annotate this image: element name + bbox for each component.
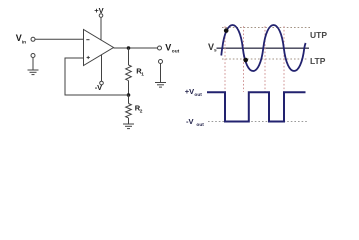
terminal -V: [100, 81, 104, 85]
dotted vertical line crossing 1: [224, 26, 226, 92]
label Vin: [16, 33, 26, 46]
wire output node to R1: [128, 48, 130, 65]
ground output: [155, 83, 166, 88]
resistor R2: [126, 104, 132, 118]
dotted vertical line crossing 2: [243, 26, 245, 92]
resistor R1: [126, 65, 132, 81]
label Vs: [208, 42, 217, 54]
svg-text:V: V: [165, 43, 171, 53]
LTP threshold dotted line: [222, 58, 308, 60]
svg-text:UTP: UTP: [310, 30, 327, 40]
wire node to R2: [128, 95, 130, 104]
node feedback junction: [127, 93, 131, 97]
svg-text:-V: -V: [186, 117, 194, 126]
node output junction: [127, 46, 131, 50]
op-amp minus sign: [86, 39, 89, 41]
svg-text:out: out: [172, 49, 180, 55]
wire terminal to ground: [32, 58, 34, 70]
wire R2 to ground: [128, 118, 130, 124]
terminal +V: [99, 14, 103, 18]
wire op-amp to -V: [101, 55, 103, 81]
UTP threshold dotted line: [222, 27, 310, 29]
svg-text:LTP: LTP: [310, 56, 326, 66]
wire +V to op-amp: [100, 18, 102, 41]
dotted vertical line crossing 4: [283, 26, 285, 92]
sine wave Vin: [221, 25, 305, 71]
svg-text:+V: +V: [185, 87, 194, 96]
label R1: [136, 67, 144, 78]
wire feedback: [65, 58, 129, 95]
node dot UTP crossing: [224, 28, 229, 33]
wire R1 to node: [128, 81, 130, 95]
terminal Vin: [31, 37, 35, 41]
terminal input ground side: [31, 54, 35, 58]
square wave Vout: [207, 92, 306, 121]
label Vout: [165, 43, 179, 55]
svg-text:1: 1: [141, 71, 144, 77]
axis input waveform: [217, 47, 310, 49]
svg-text:out: out: [196, 122, 204, 128]
svg-text:2: 2: [140, 108, 143, 114]
label R2: [135, 104, 143, 115]
label +Vout: [185, 87, 202, 98]
wire output: [114, 47, 158, 49]
dotted vertical line crossing 3: [264, 26, 266, 92]
terminal Vout: [158, 46, 162, 50]
wire Vin to inverting input: [35, 38, 83, 40]
wire terminal to output ground: [160, 64, 162, 83]
svg-text:-V: -V: [95, 83, 103, 92]
ground input: [28, 70, 39, 75]
node dot LTP crossing: [243, 58, 248, 63]
ground R2: [123, 124, 134, 129]
label -Vout: [186, 117, 204, 128]
terminal output ground side: [159, 60, 163, 64]
op-amp U1: [84, 30, 114, 66]
svg-text:s: s: [214, 49, 217, 54]
svg-text:in: in: [22, 40, 26, 46]
svg-text:out: out: [194, 92, 202, 98]
op-amp plus sign: [87, 56, 90, 59]
dotted -Vout baseline: [208, 121, 307, 123]
